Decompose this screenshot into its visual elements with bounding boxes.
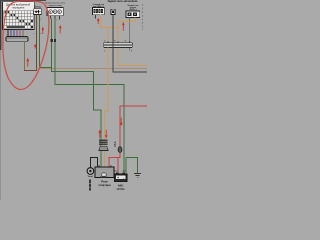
scan border top xyxy=(0,0,46,1)
diode lead brown xyxy=(36,14,38,70)
diode symbol xyxy=(36,10,39,13)
wire red node to battery plus xyxy=(117,158,119,174)
red arrow at diode lead 2 xyxy=(42,27,45,34)
svg-text:заднего хода: заднего хода xyxy=(49,5,63,7)
rear lamp connector new type box xyxy=(126,11,140,17)
dashed harness boundary xyxy=(142,4,144,30)
red arrow at old lamp pin xyxy=(97,18,100,24)
svg-text:15A: 15A xyxy=(113,141,117,147)
diode lead green xyxy=(39,14,41,67)
diode D1 box xyxy=(34,9,42,15)
sensor wire purple xyxy=(17,29,18,36)
wire green battery minus to ground xyxy=(126,157,137,174)
reverse light switch S1 box xyxy=(47,7,63,15)
gear sensor filled cells xyxy=(4,11,33,28)
red arrow up above relay xyxy=(98,130,101,138)
red arrow at new lamp orange wire xyxy=(122,22,125,31)
harness connector bar X2 xyxy=(108,41,129,42)
inline connector on starter wires stack xyxy=(99,140,107,141)
starter motor M xyxy=(87,168,94,175)
red arrow at switch wire xyxy=(59,25,62,34)
scan border left xyxy=(0,0,1,50)
svg-text:передачи: передачи xyxy=(12,6,25,10)
wire green G2 switch to battery xyxy=(55,18,124,174)
svg-text:12V/9А: 12V/9А xyxy=(116,188,125,191)
svg-text:+: + xyxy=(117,176,119,180)
svg-text:30: 30 xyxy=(110,165,112,167)
single pin connector box xyxy=(111,9,115,14)
svg-text:2: 2 xyxy=(56,20,57,22)
wire gray new lamp xyxy=(128,17,130,50)
svg-text:2: 2 xyxy=(40,19,41,21)
starter vertical label xyxy=(89,180,91,183)
wire green diode to switch net xyxy=(40,66,52,68)
wire orange trunk down to relay xyxy=(105,47,108,167)
red arrow down above relay xyxy=(105,130,108,139)
fuse F1 15A xyxy=(118,147,122,153)
inline splice on G2 xyxy=(54,39,56,42)
wire red battery feed xyxy=(120,106,147,146)
inline splice on G1 xyxy=(51,39,53,42)
wire brown link olive to diode xyxy=(24,70,36,72)
sensor wire violet xyxy=(11,29,12,36)
red arrow at sensor output xyxy=(26,58,29,67)
sensor wire gray xyxy=(23,29,24,36)
switch pin 1 xyxy=(49,10,53,14)
ground chassis right xyxy=(134,173,141,177)
wire orange new lamp xyxy=(118,17,147,65)
gear position sensor box xyxy=(2,2,34,30)
starter relay K1 box xyxy=(95,167,114,178)
svg-text:b: b xyxy=(40,33,41,35)
gear sensor contact grid xyxy=(4,11,34,29)
svg-text:Диод: Диод xyxy=(34,5,41,9)
red arrow at diode lead 1 xyxy=(34,44,37,49)
switch stubs xyxy=(51,16,60,20)
sensor connector X1 xyxy=(6,37,28,42)
wire green G1 switch to relay xyxy=(52,18,101,167)
red arrow down on fuse wire xyxy=(120,118,123,126)
red annotation circle xyxy=(3,1,49,89)
inline connector housing xyxy=(99,146,109,150)
wire orange drop to connector xyxy=(107,28,109,43)
old lamp stub pin xyxy=(95,15,97,19)
switch pin 2 xyxy=(53,10,57,14)
battery GB1 xyxy=(116,173,118,175)
sensor wire black xyxy=(8,29,9,36)
wire tan trunk to right edge xyxy=(37,68,148,70)
svg-text:стартера: стартера xyxy=(98,183,111,187)
svg-text:1: 1 xyxy=(33,19,34,21)
switch pin 3 xyxy=(58,10,62,14)
svg-text:50: 50 xyxy=(98,165,100,167)
wire orange old lamp xyxy=(101,15,119,28)
sensor wire red xyxy=(20,29,21,36)
svg-text:Задняя часть автомобиля: Задняя часть автомобиля xyxy=(108,0,138,3)
wire red node to relay xyxy=(109,158,121,167)
wire red fuse to node xyxy=(119,153,121,159)
sensor wire blue xyxy=(14,29,15,36)
wire olive from sensor connector xyxy=(24,41,26,70)
rear lamp connector old type box xyxy=(92,8,104,15)
wire black relay to starter xyxy=(90,157,97,167)
wire dark gray old lamp xyxy=(113,14,147,72)
